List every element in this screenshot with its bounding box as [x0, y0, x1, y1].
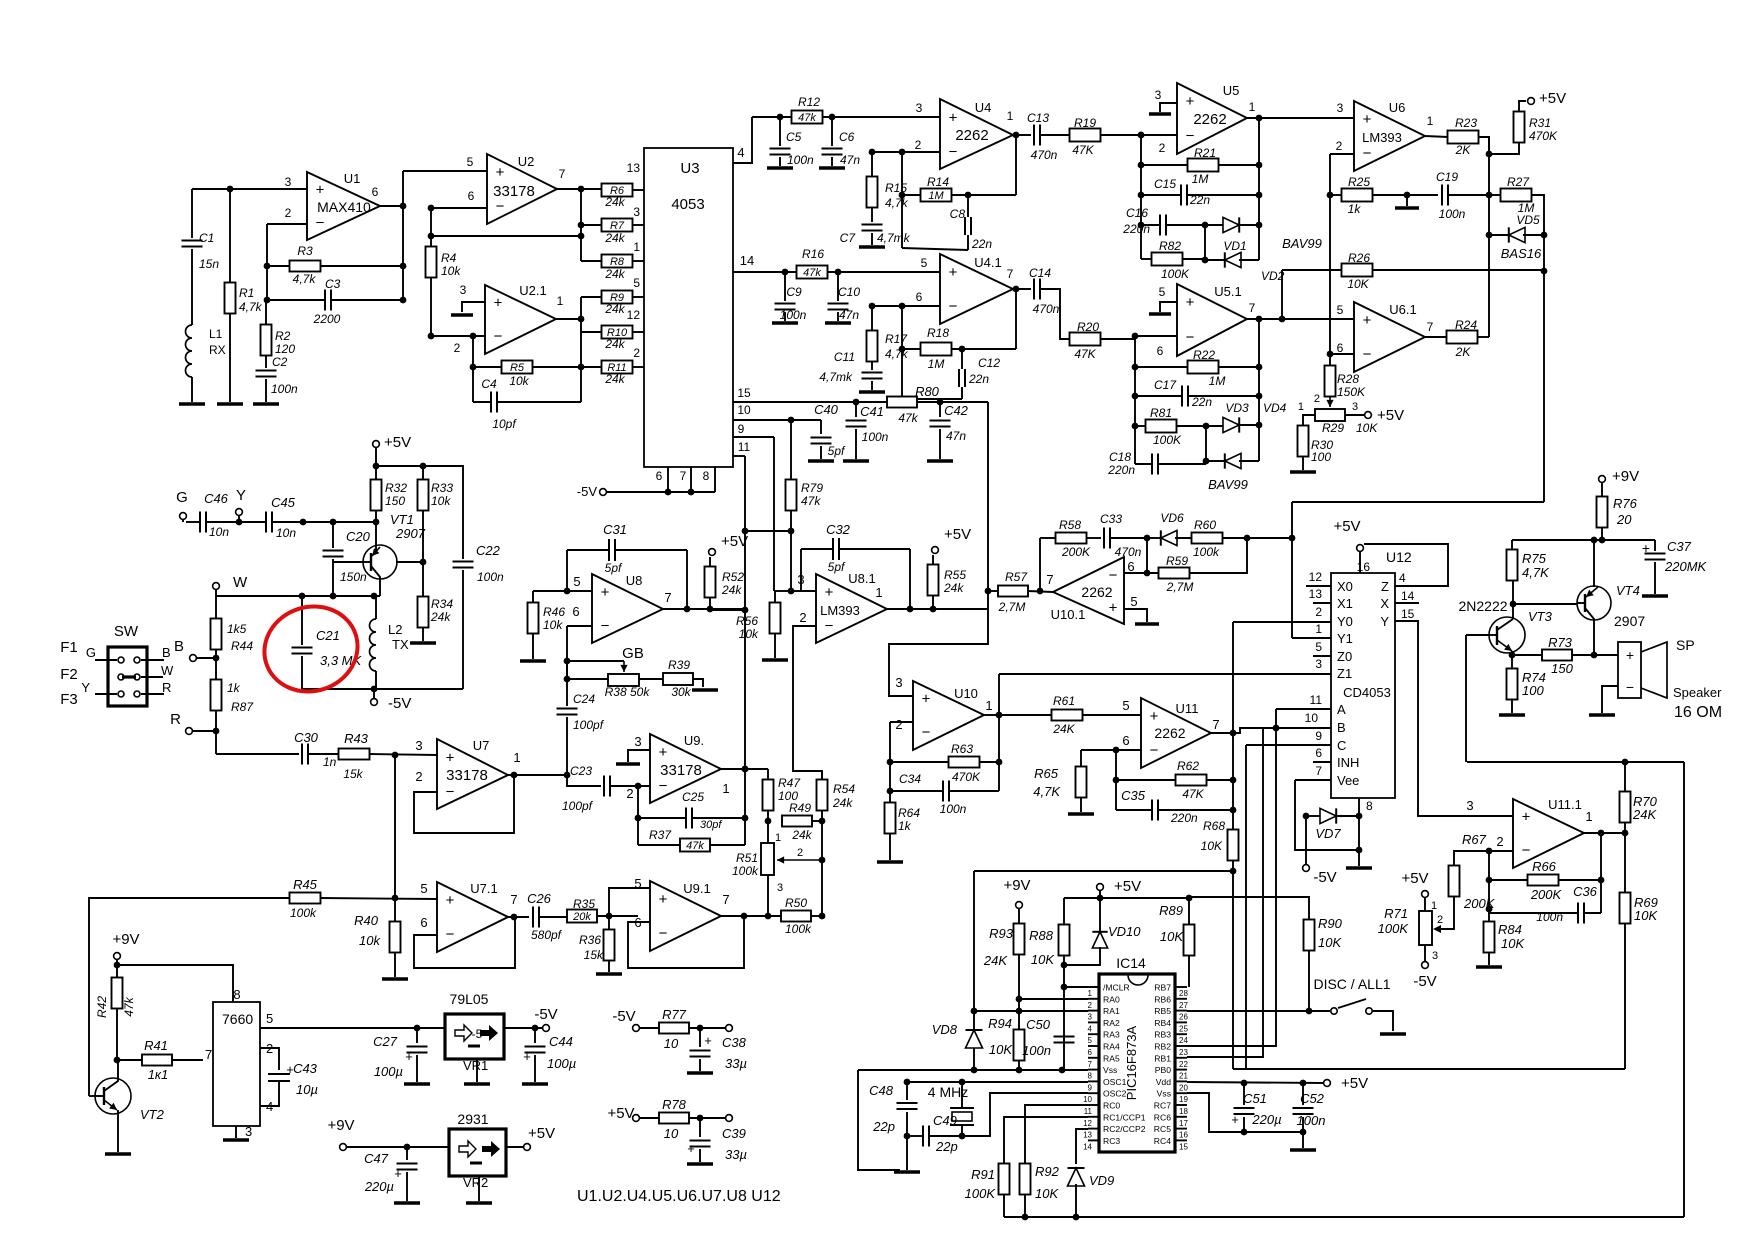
- op-amp U8: [592, 574, 663, 643]
- svg-text:2907: 2907: [395, 526, 426, 541]
- svg-text:100K: 100K: [1161, 267, 1190, 281]
- svg-text:C33: C33: [1100, 512, 1122, 526]
- capacitor C40 5pf: [820, 420, 822, 434]
- resistor R78 10: [640, 1117, 659, 1119]
- resistor R36 15k: [608, 916, 610, 930]
- resistor R87 1k: [211, 680, 222, 711]
- svg-text:10k: 10k: [509, 374, 529, 388]
- svg-text:R31: R31: [1529, 116, 1551, 130]
- svg-text:RB3: RB3: [1154, 1030, 1171, 1040]
- svg-text:U10.1: U10.1: [1051, 607, 1086, 622]
- wire U3 pin9: [733, 436, 774, 438]
- svg-text:2: 2: [1314, 393, 1320, 405]
- svg-text:1: 1: [1585, 809, 1592, 824]
- svg-text:RA4: RA4: [1103, 1042, 1120, 1052]
- svg-text:R4: R4: [441, 251, 457, 265]
- svg-text:100n: 100n: [780, 308, 807, 322]
- svg-text:+5V: +5V: [528, 1125, 555, 1142]
- svg-text:1: 1: [1007, 109, 1014, 123]
- svg-text:24K: 24K: [1052, 722, 1075, 736]
- svg-text:BAV99: BAV99: [1208, 477, 1248, 492]
- svg-text:100µ: 100µ: [547, 1056, 576, 1071]
- ground: [462, 302, 485, 312]
- svg-text:24: 24: [1179, 1036, 1188, 1045]
- svg-text:C19: C19: [1436, 170, 1458, 184]
- transistor VT3 2N2222: [1489, 617, 1525, 653]
- resistor R46 10k: [533, 590, 592, 592]
- svg-text:−: −: [1522, 842, 1531, 859]
- svg-text:150: 150: [385, 494, 405, 508]
- diode VD9: [1068, 1168, 1085, 1186]
- svg-text:IC14: IC14: [1116, 955, 1146, 971]
- resistor R67 200K: [1454, 851, 1489, 866]
- svg-text:R57: R57: [1005, 570, 1028, 584]
- svg-text:R59: R59: [1166, 554, 1188, 568]
- svg-text:2: 2: [1496, 834, 1503, 849]
- wire U1 output: [380, 205, 403, 207]
- svg-text:470K: 470K: [1529, 129, 1558, 143]
- svg-text:4053: 4053: [671, 196, 704, 213]
- wire: [1330, 153, 1354, 155]
- svg-text:5: 5: [1122, 698, 1129, 713]
- svg-text:100: 100: [1522, 683, 1544, 698]
- ground: [772, 321, 798, 324]
- svg-text:100n: 100n: [1022, 1043, 1051, 1058]
- svg-text:2: 2: [895, 717, 902, 732]
- resistor R44 1k5: [215, 596, 217, 619]
- capacitor C12 22n: [958, 369, 960, 387]
- svg-text:U1.U2.U4.U5.U6.U7.U8 U12: U1.U2.U4.U5.U6.U7.U8 U12: [577, 1188, 781, 1205]
- ground: [687, 1071, 713, 1074]
- svg-text:5: 5: [266, 1011, 273, 1026]
- -5V terminal: [371, 699, 378, 706]
- svg-text:1: 1: [1315, 622, 1322, 636]
- svg-text:47k: 47k: [898, 411, 918, 425]
- svg-text:C46: C46: [204, 491, 229, 506]
- terminal R: [186, 728, 193, 735]
- resistor R61 24K: [1052, 710, 1083, 721]
- svg-text:U2: U2: [518, 154, 535, 169]
- svg-text:VT4: VT4: [1616, 583, 1640, 598]
- resistor R94 10K: [1014, 1030, 1025, 1061]
- ground: [520, 659, 546, 662]
- svg-text:2: 2: [799, 610, 806, 625]
- svg-text:13: 13: [1083, 1131, 1092, 1140]
- svg-text:R3: R3: [297, 244, 313, 258]
- svg-text:PB0: PB0: [1155, 1065, 1171, 1075]
- wire U4.1 output: [1013, 288, 1031, 290]
- svg-text:47k: 47k: [122, 996, 136, 1016]
- svg-text:CD4053: CD4053: [1343, 685, 1391, 700]
- svg-text:SP: SP: [1676, 637, 1695, 653]
- wire RC2 VD9: [1076, 1129, 1088, 1164]
- svg-text:−: −: [1150, 742, 1159, 759]
- resistor R70 24K: [1624, 762, 1626, 792]
- svg-text:R38 50k: R38 50k: [605, 685, 651, 699]
- op-amp U4 2262: [940, 99, 1013, 169]
- wire U7.1 output: [508, 916, 529, 918]
- wire INH pin6: [1313, 761, 1331, 763]
- svg-text:−: −: [1363, 145, 1372, 162]
- capacitor C51 220u: [1243, 1083, 1245, 1105]
- svg-text:7: 7: [680, 469, 687, 483]
- svg-text:C51: C51: [1243, 1091, 1267, 1106]
- svg-text:C3: C3: [325, 277, 341, 291]
- resistor R79 47k: [786, 480, 797, 511]
- op-amp U5.1: [1177, 284, 1247, 356]
- svg-text:−: −: [949, 143, 958, 160]
- wire to U12 Z1: [999, 673, 1331, 675]
- svg-text:B: B: [174, 638, 184, 655]
- svg-text:2931: 2931: [457, 1111, 488, 1127]
- resistor R6 24k: [602, 184, 633, 197]
- wire feedback U9.1: [628, 916, 744, 968]
- svg-text:VR1: VR1: [463, 1058, 488, 1073]
- svg-text:7: 7: [722, 892, 729, 907]
- svg-text:20k: 20k: [572, 911, 591, 923]
- resistor R26 10K: [1342, 264, 1373, 277]
- capacitor C36 100n: [1577, 903, 1579, 924]
- svg-text:R: R: [162, 680, 171, 695]
- op-amp U9.1: [650, 881, 721, 951]
- diode VD8: [966, 1030, 983, 1048]
- wire U11 output / B bus: [1211, 728, 1331, 733]
- svg-text:Vss: Vss: [1103, 1065, 1117, 1075]
- svg-text:+: +: [394, 1166, 402, 1181]
- wire U10.1 plus to ground: [1124, 609, 1147, 622]
- svg-text:C4: C4: [481, 377, 497, 391]
- wire right border: [1683, 762, 1685, 1217]
- svg-text:R25: R25: [1348, 175, 1370, 189]
- resistor R21 1M: [1188, 159, 1219, 172]
- capacitor C14 470n: [1033, 279, 1035, 300]
- svg-text:R19: R19: [1074, 116, 1096, 130]
- svg-text:12: 12: [1083, 1119, 1092, 1128]
- ground: [1476, 965, 1502, 968]
- resistor R37 47k: [680, 839, 710, 852]
- svg-text:3: 3: [1315, 657, 1322, 671]
- svg-text:10K: 10K: [1201, 839, 1223, 853]
- resistor R52 24k: [709, 597, 711, 609]
- wire: [267, 223, 307, 225]
- +9V terminal: [1599, 476, 1606, 483]
- svg-text:5: 5: [467, 155, 474, 169]
- resistor R81 100K: [1146, 420, 1177, 433]
- svg-text:+: +: [659, 891, 668, 908]
- speaker SP: [1618, 642, 1641, 698]
- svg-text:+9V: +9V: [327, 1117, 354, 1134]
- svg-text:+: +: [949, 264, 958, 281]
- resistor R20 47K: [1070, 333, 1101, 346]
- svg-text:U8.1: U8.1: [848, 571, 875, 586]
- svg-text:R90: R90: [1318, 916, 1343, 931]
- svg-text:−: −: [601, 617, 610, 634]
- svg-text:10K: 10K: [1031, 952, 1055, 967]
- svg-text:GB: GB: [622, 645, 644, 662]
- svg-text:5: 5: [420, 881, 427, 896]
- resistor R74 100: [1511, 655, 1513, 669]
- svg-text:U1: U1: [344, 171, 361, 186]
- capacitor C22 100n: [453, 561, 474, 563]
- svg-text:15n: 15n: [199, 257, 219, 271]
- svg-text:3: 3: [777, 882, 783, 894]
- svg-text:R75: R75: [1522, 551, 1547, 566]
- svg-text:−: −: [494, 328, 503, 345]
- svg-text:VT1: VT1: [390, 512, 414, 527]
- svg-text:R22: R22: [1193, 348, 1215, 362]
- svg-text:47k: 47k: [801, 494, 821, 508]
- resistor R68 10K: [1228, 830, 1239, 861]
- svg-text:U5: U5: [1223, 83, 1240, 98]
- wire RA0: [1019, 998, 1088, 1000]
- svg-text:INH: INH: [1337, 755, 1359, 770]
- ground: [1068, 812, 1094, 815]
- svg-text:47K: 47K: [1072, 143, 1094, 157]
- wire Vss rail 1070: [858, 1069, 1088, 1071]
- ground: [1290, 470, 1316, 473]
- diode VD10: [1099, 898, 1101, 931]
- svg-text:R18: R18: [927, 326, 949, 340]
- svg-text:C37: C37: [1667, 539, 1692, 554]
- capacitor C24 100pf: [566, 661, 568, 706]
- svg-text:24k: 24k: [604, 302, 625, 316]
- svg-text:2: 2: [1088, 1001, 1093, 1010]
- svg-text:Y: Y: [236, 487, 246, 504]
- svg-text:47k: 47k: [803, 267, 821, 279]
- svg-text:R88: R88: [1029, 928, 1054, 943]
- svg-text:5: 5: [1130, 594, 1137, 609]
- terminal W: [213, 583, 220, 590]
- wire col974 to PIC: [973, 871, 975, 1070]
- svg-text:+5V: +5V: [1377, 407, 1404, 424]
- +5V terminal: [1528, 98, 1535, 105]
- capacitor C15 22n: [1180, 185, 1182, 206]
- svg-text:6: 6: [420, 915, 427, 930]
- svg-text:Vdd: Vdd: [1156, 1077, 1172, 1087]
- svg-text:C10: C10: [838, 285, 860, 299]
- svg-text:R65: R65: [1034, 766, 1059, 781]
- svg-text:100n: 100n: [940, 802, 967, 816]
- ground: [1380, 1032, 1406, 1035]
- svg-text:5: 5: [921, 256, 928, 270]
- capacitor C43 10u: [260, 1048, 279, 1070]
- svg-text:R43: R43: [344, 731, 369, 746]
- svg-text:22n: 22n: [971, 237, 992, 251]
- svg-text:MAX410: MAX410: [317, 199, 371, 215]
- resistor R7 24k: [602, 219, 633, 232]
- svg-text:23: 23: [1179, 1048, 1188, 1057]
- wire Y pin15 to U11.1: [1395, 621, 1513, 816]
- svg-text:100k: 100k: [290, 906, 317, 920]
- svg-text:9: 9: [1315, 729, 1322, 743]
- svg-text:7: 7: [205, 1047, 212, 1062]
- svg-text:16 OM: 16 OM: [1674, 704, 1722, 721]
- ground: [394, 1201, 420, 1204]
- svg-text:R50: R50: [785, 896, 807, 910]
- svg-text:100µ: 100µ: [374, 1064, 403, 1079]
- svg-text:+: +: [446, 750, 455, 767]
- op-amp U6.1: [1354, 302, 1425, 372]
- capacitor C10 47n: [837, 272, 839, 301]
- +5V terminal: [633, 1115, 640, 1122]
- resistor R73 150: [1542, 650, 1572, 661]
- wire col1246: [1245, 745, 1247, 1069]
- wire B pin10 bus: [1263, 727, 1276, 729]
- svg-text:R32: R32: [385, 481, 407, 495]
- ground: [1589, 713, 1615, 716]
- svg-text:LM393: LM393: [1362, 130, 1402, 145]
- capacitor C6 47n: [831, 117, 833, 146]
- wire: [902, 151, 940, 153]
- resistor R75 4,7K: [1511, 540, 1513, 550]
- svg-text:Z: Z: [1381, 579, 1389, 594]
- capacitor C19 100n: [1441, 185, 1443, 206]
- svg-text:16: 16: [1179, 1131, 1188, 1140]
- svg-text:C34: C34: [899, 772, 921, 786]
- resistor R80 47k: [887, 397, 917, 408]
- wire OSC2: [962, 1093, 1088, 1136]
- svg-text:F2: F2: [60, 666, 78, 683]
- svg-text:24k: 24k: [604, 195, 625, 209]
- resistor R63 470K: [949, 757, 980, 768]
- svg-text:2262: 2262: [955, 127, 988, 144]
- svg-text:2,7M: 2,7M: [1166, 580, 1194, 594]
- svg-text:11: 11: [738, 440, 751, 454]
- svg-text:2K: 2K: [1455, 143, 1472, 157]
- op-amp U4.1: [940, 254, 1013, 324]
- wire speaker minus: [1602, 686, 1618, 713]
- svg-text:47k: 47k: [686, 840, 704, 852]
- svg-text:C41: C41: [860, 404, 884, 419]
- resistor R16 47k: [797, 266, 828, 279]
- capacitor C35 220n: [1151, 800, 1153, 821]
- svg-text:5: 5: [633, 276, 640, 290]
- svg-text:C5: C5: [786, 130, 802, 144]
- svg-text:30pf: 30pf: [700, 819, 722, 831]
- svg-text:C39: C39: [722, 1126, 746, 1141]
- svg-text:−: −: [496, 198, 505, 215]
- svg-text:28: 28: [1179, 989, 1188, 998]
- svg-text:−: −: [1109, 567, 1118, 584]
- svg-text:10k: 10k: [543, 618, 563, 632]
- resistor R4 10k: [426, 247, 437, 278]
- svg-text:100pf: 100pf: [573, 718, 605, 732]
- ground: [217, 402, 243, 405]
- svg-text:C32: C32: [826, 522, 851, 537]
- svg-text:R46: R46: [543, 605, 565, 619]
- resistor R56 10k: [791, 590, 816, 592]
- svg-text:7: 7: [1249, 301, 1256, 315]
- svg-text:BAV99: BAV99: [1282, 236, 1322, 251]
- svg-text:B: B: [162, 645, 171, 660]
- capacitor C48 22p: [906, 1082, 908, 1100]
- svg-text:C25: C25: [682, 790, 704, 804]
- svg-text:3: 3: [916, 101, 923, 115]
- wire U3 pin14: [733, 271, 797, 273]
- svg-text:7: 7: [1088, 1060, 1093, 1069]
- svg-text:47K: 47K: [1182, 787, 1204, 801]
- svg-text:X: X: [1380, 596, 1389, 611]
- svg-text:3: 3: [895, 675, 902, 690]
- svg-text:120: 120: [275, 342, 295, 356]
- svg-text:10: 10: [664, 1126, 679, 1141]
- svg-text:VR2: VR2: [463, 1175, 488, 1190]
- resistor R66 200K: [1528, 875, 1559, 886]
- svg-text:R87: R87: [231, 700, 254, 714]
- svg-text:1: 1: [1249, 100, 1256, 114]
- wire col1276 to RB2: [1187, 709, 1276, 1046]
- capacitor C26 580pf: [532, 907, 534, 928]
- svg-text:1: 1: [985, 698, 992, 713]
- resistor R22 1M: [1188, 361, 1219, 374]
- svg-text:R21: R21: [1194, 146, 1216, 160]
- resistor R89 10K: [1188, 898, 1190, 925]
- svg-text:R27: R27: [1507, 175, 1530, 189]
- wire: [1135, 335, 1177, 337]
- wire col745 down: [744, 610, 746, 845]
- svg-text:100n: 100n: [477, 570, 504, 584]
- svg-text:470n: 470n: [1031, 148, 1058, 162]
- svg-text:3: 3: [1337, 101, 1344, 115]
- svg-text:R35: R35: [573, 897, 595, 911]
- svg-text:−: −: [922, 724, 931, 741]
- svg-text:18: 18: [1179, 1107, 1188, 1116]
- svg-text:15k: 15k: [343, 767, 363, 781]
- capacitor C25 30pf: [637, 786, 639, 845]
- +5V terminal: [524, 1144, 531, 1151]
- svg-text:R89: R89: [1159, 903, 1183, 918]
- svg-text:R49: R49: [789, 801, 811, 815]
- svg-text:C47: C47: [364, 1151, 389, 1166]
- svg-text:RB6: RB6: [1154, 994, 1171, 1004]
- resistor R18 1M: [901, 306, 903, 399]
- svg-text:−: −: [949, 298, 958, 315]
- svg-text:10n: 10n: [276, 526, 296, 540]
- svg-text:7: 7: [559, 167, 566, 181]
- svg-text:R67: R67: [1462, 832, 1487, 847]
- svg-text:+5V: +5V: [1341, 1075, 1368, 1092]
- svg-text:TX: TX: [392, 637, 409, 652]
- svg-text:R45: R45: [293, 877, 318, 892]
- svg-text:4,7K: 4,7K: [1522, 565, 1550, 580]
- svg-text:-5V: -5V: [388, 695, 411, 712]
- IC U3 4053: [644, 148, 733, 467]
- wire base col down: [1465, 635, 1467, 762]
- wire: [192, 188, 307, 190]
- svg-text:12: 12: [1309, 570, 1323, 584]
- capacitor C46 10n: [199, 512, 201, 533]
- svg-text:VD3: VD3: [1225, 401, 1249, 415]
- resistor R54 24k: [821, 771, 823, 780]
- resistor R17 4,7k: [867, 331, 878, 362]
- wire: [1135, 134, 1177, 136]
- svg-text:4,7k: 4,7k: [239, 300, 263, 314]
- svg-text:17: 17: [1179, 1119, 1188, 1128]
- -5V terminal: [1305, 816, 1307, 864]
- svg-text:X0: X0: [1337, 579, 1353, 594]
- svg-text:10k: 10k: [441, 264, 461, 278]
- resistor R15 4,7k: [867, 177, 878, 208]
- ground: [692, 688, 718, 691]
- svg-text:1: 1: [875, 585, 882, 600]
- svg-text:U4.1: U4.1: [974, 255, 1001, 270]
- svg-text:+: +: [494, 295, 503, 312]
- diode VD6: [1161, 530, 1177, 545]
- ground: [1302, 1132, 1304, 1148]
- ground: [410, 641, 436, 644]
- resistor R65 4,7K: [1080, 750, 1082, 767]
- svg-text:12: 12: [627, 308, 641, 322]
